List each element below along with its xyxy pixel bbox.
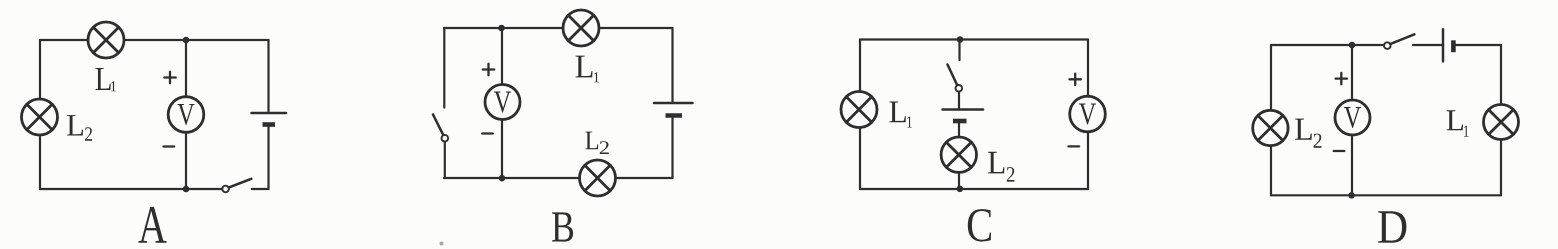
lamp L1 (C) [841, 92, 877, 128]
wire B left upper [443, 28, 445, 108]
wire A bottom left [40, 188, 222, 190]
lamp L1 (B) [563, 10, 599, 46]
voltmeter V (B) [485, 85, 520, 120]
wire D top left [1271, 44, 1384, 46]
polarity plus (B) [483, 64, 494, 75]
junction node A bottom [183, 186, 190, 193]
wire D bottom [1271, 194, 1501, 196]
label L1 (B) [576, 56, 599, 83]
voltmeter V (C) [1070, 96, 1106, 132]
polarity minus (C) [1069, 145, 1080, 147]
voltmeter V (D) [1335, 100, 1370, 135]
lamp L1 (D) [1484, 105, 1519, 140]
label L2 (A) [67, 115, 92, 141]
wire A left [39, 40, 41, 189]
battery (A) [252, 113, 287, 125]
wire C middle segment 2 [958, 122, 960, 137]
polarity plus (D) [1336, 73, 1347, 84]
voltmeter V (A) [168, 97, 204, 133]
wire D middle branch [1351, 45, 1353, 195]
stray scan speck [440, 242, 444, 246]
label L1 (C) [889, 102, 911, 128]
lamp L2 (C) [941, 137, 976, 172]
battery (C) [943, 110, 984, 122]
wire D left [1270, 45, 1272, 195]
label L1 (D) [1447, 110, 1469, 136]
lamp L1 (A) [88, 22, 124, 58]
label D [1378, 211, 1406, 242]
lamp L2 (A) [22, 99, 58, 135]
lamp L2 (B) [580, 160, 616, 196]
wire B right upper [671, 28, 673, 102]
label L1 (A) [95, 68, 115, 91]
wire B top [444, 27, 673, 29]
battery (D) [1443, 29, 1453, 61]
wire A top [40, 39, 269, 41]
wire A right lower [267, 126, 269, 190]
wire C middle upper [958, 40, 960, 61]
wire A bottom right [252, 188, 269, 190]
polarity minus (D) [1334, 150, 1345, 152]
polarity plus (C) [1070, 74, 1081, 85]
junction node C bottom [957, 186, 964, 193]
switch S (C) [948, 65, 963, 92]
polarity minus (B) [482, 132, 493, 134]
wire B right lower [671, 117, 673, 179]
wire B bottom [444, 177, 673, 179]
polarity minus (A) [164, 145, 175, 147]
junction node B bottom [499, 175, 506, 182]
label A [138, 207, 166, 243]
label L2 (D) [1295, 119, 1321, 148]
junction node A top [183, 37, 190, 44]
label B [552, 212, 573, 241]
switch S (A) [222, 179, 251, 193]
polarity plus (A) [164, 72, 175, 83]
wire B left lower [444, 142, 446, 178]
junction node D bottom [1348, 192, 1355, 199]
lamp L2 (D) [1253, 110, 1288, 145]
label L2 (B) [585, 132, 608, 154]
junction node C top [957, 36, 964, 43]
junction node D top [1349, 42, 1356, 49]
wire A right upper [267, 40, 269, 112]
wire D top right [1455, 44, 1502, 46]
wire D top middle [1413, 44, 1442, 46]
wire C bottom [860, 188, 1088, 190]
battery (B) [654, 103, 693, 116]
switch S (D) [1384, 34, 1414, 49]
wire A middle branch [185, 40, 187, 189]
wire C middle lower [958, 172, 960, 189]
wire C right [1087, 40, 1089, 190]
label C [968, 209, 991, 241]
junction node B top [498, 25, 505, 32]
label L2 (C) [988, 152, 1014, 182]
wire D right [1500, 45, 1502, 195]
wire B middle branch [501, 28, 503, 178]
wire C middle segment 1 [958, 92, 960, 109]
wire C left [859, 40, 861, 190]
wire C top [860, 38, 1088, 40]
switch S (B) [433, 115, 448, 142]
